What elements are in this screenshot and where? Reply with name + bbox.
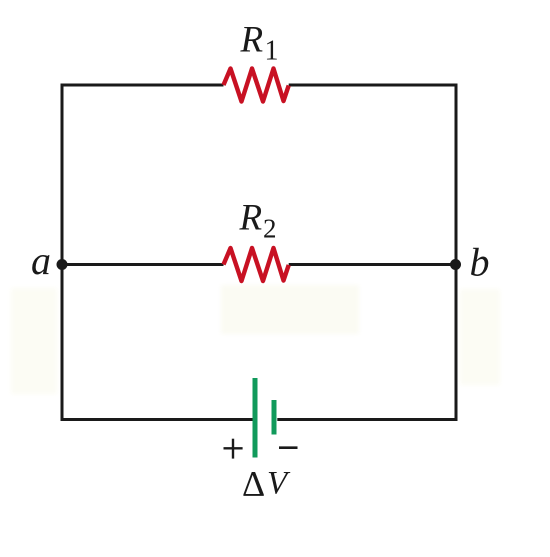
faint highlight remnant right: [460, 289, 500, 385]
node b: [450, 259, 461, 270]
label R1: [240, 20, 279, 67]
wire top-left segment: [61, 84, 224, 87]
minus sign: [279, 446, 298, 449]
wire right vertical: [455, 84, 458, 422]
svg-text:b: b: [470, 240, 490, 285]
faint highlight remnant middle: [221, 285, 359, 334]
battery short plate (-): [272, 400, 277, 435]
plus sign: [224, 439, 243, 459]
wire middle-left segment: [62, 263, 224, 266]
wire left vertical: [61, 84, 64, 422]
svg-text:2: 2: [263, 214, 277, 244]
faint highlight remnant left: [11, 288, 57, 394]
wire bottom-left segment: [61, 418, 253, 421]
battery long plate (+): [253, 378, 258, 458]
svg-text:a: a: [31, 238, 51, 283]
resistor R1: [224, 69, 289, 102]
node a: [57, 259, 68, 270]
svg-text:R: R: [240, 20, 264, 61]
svg-text:Δ: Δ: [242, 464, 265, 504]
resistor R2: [224, 248, 289, 281]
svg-text:1: 1: [265, 36, 279, 67]
wire bottom-right segment: [277, 418, 457, 421]
wire top-right segment: [289, 84, 458, 87]
wire middle-right segment: [289, 263, 456, 266]
label R2: [239, 198, 277, 244]
svg-text:R: R: [239, 198, 263, 239]
label delta-V: [242, 464, 291, 504]
